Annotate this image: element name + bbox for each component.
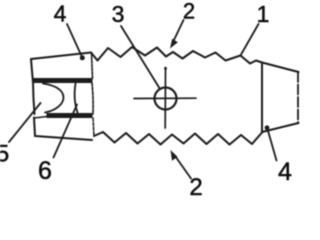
bottom cap right edge — [93, 118, 94, 136]
bottom cap left edge — [34, 118, 35, 137]
crosshair vertical line — [164, 68, 166, 129]
inner D arc — [43, 84, 64, 113]
crosshair horizontal line — [134, 97, 196, 99]
svg-text:2: 2 — [183, 0, 195, 24]
middle left edge — [33, 83, 35, 114]
bottom cap top-left edge — [34, 117, 47, 119]
leader 3 — [121, 26, 160, 89]
arrow 2 bottom head — [171, 150, 178, 161]
left cap right edge upper — [92, 53, 93, 79]
svg-text:5: 5 — [0, 141, 9, 168]
leader 5 — [9, 103, 41, 142]
arrow 2 top line — [174, 20, 184, 41]
bottom cap bottom edge — [35, 136, 92, 140]
inner vertical curve — [75, 84, 78, 113]
bottom zigzag wire — [94, 132, 262, 145]
svg-text:3: 3 — [112, 1, 125, 27]
top zigzag wire — [91, 47, 262, 64]
leader 4 top — [67, 24, 82, 57]
left cap left edge upper — [31, 59, 33, 83]
electrode band upper — [34, 78, 93, 83]
leader 1 — [241, 24, 259, 56]
svg-text:6: 6 — [38, 157, 52, 185]
leader 4 bottom — [268, 129, 277, 161]
svg-text:1: 1 — [257, 1, 270, 27]
right cap bottom edge — [262, 123, 299, 132]
leader 4 bottom dot — [265, 125, 270, 130]
electrode band lower — [47, 113, 93, 118]
svg-text:4: 4 — [278, 158, 292, 186]
crosshair circle — [155, 88, 177, 110]
right cap top edge — [262, 63, 299, 73]
left cap top edge — [31, 53, 91, 60]
leader 6 — [54, 105, 78, 158]
crosshair top dot — [164, 67, 167, 70]
right cap left vertical edge — [261, 63, 263, 133]
arrow 2 top head — [170, 39, 178, 49]
leader 4 top dot — [80, 55, 85, 60]
arrow 2 bottom line — [177, 158, 192, 179]
svg-text:4: 4 — [54, 1, 67, 27]
right cap right edge — [297, 72, 299, 123]
middle right edge — [92, 83, 93, 114]
